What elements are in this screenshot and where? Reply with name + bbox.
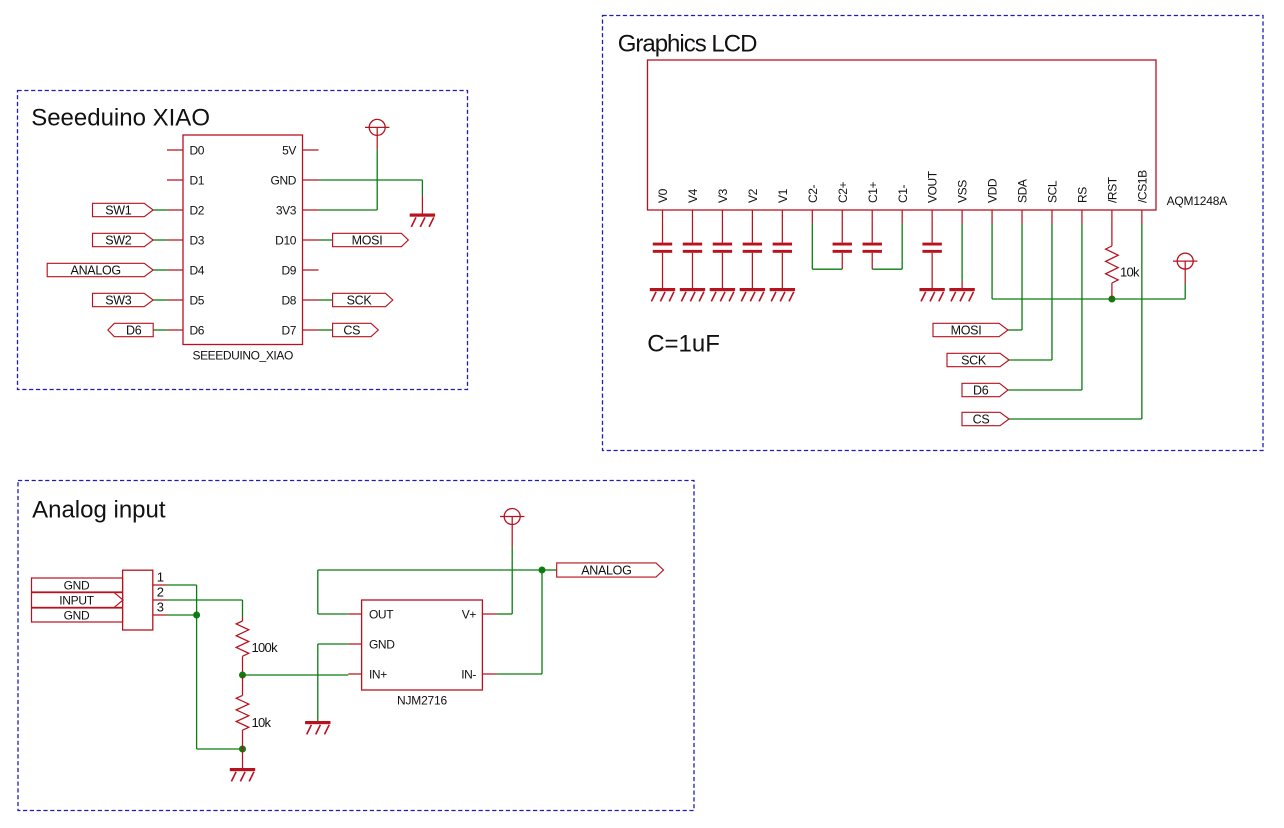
svg-text:ANALOG: ANALOG — [581, 564, 631, 578]
svg-text:C2+: C2+ — [836, 181, 850, 203]
svg-text:Graphics LCD: Graphics LCD — [618, 31, 757, 58]
svg-text:D6: D6 — [126, 324, 142, 338]
svg-text:D9: D9 — [281, 263, 296, 277]
svg-text:V2: V2 — [746, 188, 760, 203]
svg-text:/CS1B: /CS1B — [1135, 170, 1149, 203]
svg-text:/RST: /RST — [1106, 176, 1120, 203]
svg-text:GND: GND — [271, 173, 297, 187]
svg-text:D6: D6 — [190, 323, 205, 337]
svg-text:VDD: VDD — [986, 178, 1000, 203]
svg-text:C1+: C1+ — [866, 181, 880, 203]
svg-text:SDA: SDA — [1016, 179, 1030, 203]
svg-text:CS: CS — [973, 413, 990, 427]
svg-text:D6: D6 — [973, 384, 989, 398]
svg-text:GND: GND — [64, 609, 90, 623]
svg-text:D1: D1 — [190, 173, 205, 187]
svg-text:SCK: SCK — [961, 354, 987, 368]
svg-text:100k: 100k — [252, 640, 279, 655]
svg-text:GND: GND — [64, 579, 90, 593]
svg-text:AQM1248A: AQM1248A — [1167, 194, 1228, 208]
svg-text:C2-: C2- — [806, 184, 820, 203]
svg-text:3: 3 — [157, 600, 164, 615]
svg-text:RS: RS — [1076, 187, 1090, 203]
svg-text:Analog input: Analog input — [32, 497, 166, 524]
svg-text:D2: D2 — [190, 203, 205, 217]
svg-text:3V3: 3V3 — [276, 203, 297, 217]
svg-text:V1: V1 — [776, 188, 790, 203]
svg-text:SW2: SW2 — [105, 234, 132, 248]
svg-text:SCK: SCK — [347, 294, 373, 308]
svg-text:C=1uF: C=1uF — [647, 331, 720, 358]
svg-text:V3: V3 — [716, 188, 730, 203]
svg-text:D0: D0 — [190, 143, 205, 157]
svg-text:IN+: IN+ — [369, 667, 387, 681]
svg-text:SCL: SCL — [1046, 180, 1060, 203]
svg-text:C1-: C1- — [896, 184, 910, 203]
svg-text:VSS: VSS — [956, 180, 970, 203]
svg-text:INPUT: INPUT — [59, 594, 94, 608]
svg-text:SEEEDUINO_XIAO: SEEEDUINO_XIAO — [192, 349, 292, 363]
svg-text:IN-: IN- — [461, 667, 476, 681]
svg-text:D7: D7 — [281, 323, 296, 337]
svg-text:SW1: SW1 — [105, 204, 132, 218]
svg-text:V+: V+ — [462, 607, 477, 621]
svg-text:1: 1 — [157, 570, 164, 585]
svg-text:D5: D5 — [190, 293, 205, 307]
svg-text:MOSI: MOSI — [951, 324, 982, 338]
svg-text:GND: GND — [369, 637, 395, 651]
svg-text:CS: CS — [343, 324, 360, 338]
svg-text:10k: 10k — [252, 715, 272, 730]
svg-text:D10: D10 — [275, 233, 297, 247]
svg-text:VOUT: VOUT — [926, 170, 940, 203]
svg-text:D8: D8 — [281, 293, 296, 307]
svg-text:OUT: OUT — [369, 607, 394, 621]
svg-text:D3: D3 — [190, 233, 205, 247]
svg-text:D4: D4 — [190, 263, 205, 277]
svg-text:Seeeduino XIAO: Seeeduino XIAO — [31, 105, 210, 132]
svg-text:2: 2 — [157, 585, 164, 600]
svg-text:5V: 5V — [282, 143, 296, 157]
svg-text:V4: V4 — [686, 188, 700, 203]
svg-text:MOSI: MOSI — [352, 234, 383, 248]
svg-text:ANALOG: ANALOG — [71, 264, 121, 278]
svg-text:V0: V0 — [656, 188, 670, 203]
svg-text:NJM2716: NJM2716 — [397, 694, 447, 708]
svg-text:SW3: SW3 — [105, 294, 132, 308]
svg-text:10k: 10k — [1120, 265, 1140, 280]
